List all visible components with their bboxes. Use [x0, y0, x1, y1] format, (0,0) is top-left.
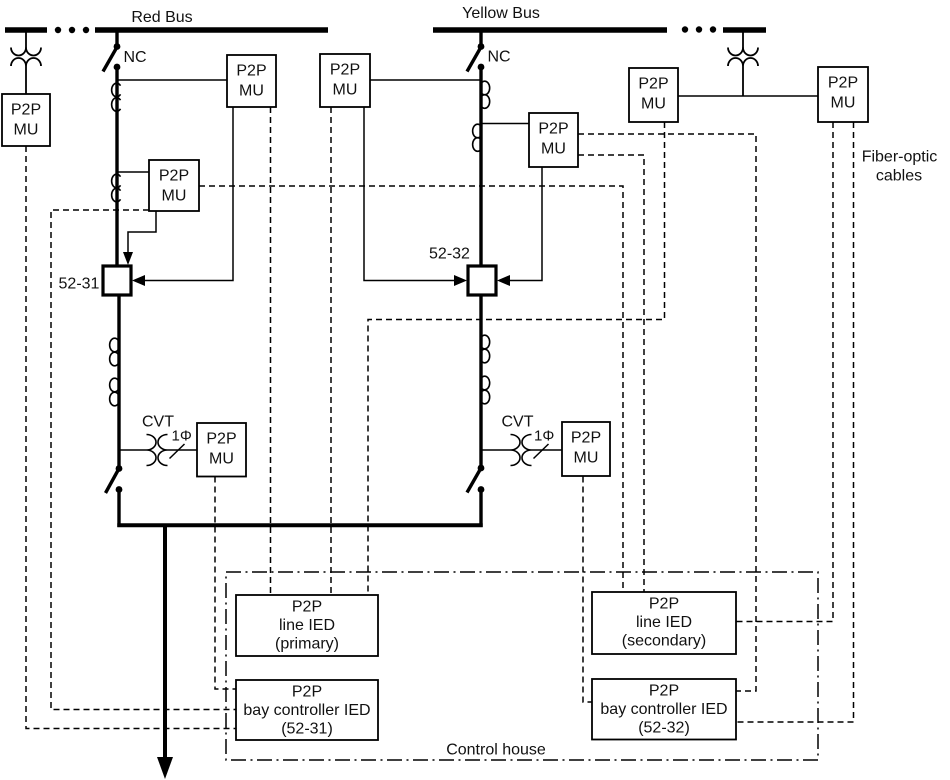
svg-text:Fiber-optic: Fiber-optic: [862, 149, 938, 166]
svg-text:P2P: P2P: [292, 684, 322, 701]
svg-text:P2P: P2P: [11, 102, 41, 119]
svg-text:P2P: P2P: [330, 62, 360, 79]
svg-text:(primary): (primary): [275, 636, 339, 653]
svg-text:P2P: P2P: [206, 431, 236, 448]
svg-text:P2P: P2P: [571, 430, 601, 447]
svg-text:MU: MU: [209, 451, 234, 468]
svg-text:Yellow Bus: Yellow Bus: [462, 5, 540, 22]
svg-text:P2P: P2P: [638, 76, 668, 93]
svg-text:1Φ: 1Φ: [534, 428, 554, 445]
svg-text:MU: MU: [641, 96, 666, 113]
svg-text:(52-32): (52-32): [638, 720, 690, 737]
svg-text:MU: MU: [333, 82, 358, 99]
svg-text:line IED: line IED: [279, 617, 335, 634]
svg-text:MU: MU: [162, 188, 187, 205]
svg-text:(secondary): (secondary): [622, 633, 706, 650]
svg-text:NC: NC: [124, 49, 147, 66]
svg-text:line IED: line IED: [636, 614, 692, 631]
svg-text:P2P: P2P: [236, 63, 266, 80]
svg-text:cables: cables: [876, 168, 922, 185]
svg-text:P2P: P2P: [649, 596, 679, 613]
svg-text:1Φ: 1Φ: [172, 428, 192, 445]
svg-text:52-32: 52-32: [429, 246, 470, 263]
svg-text:P2P: P2P: [649, 683, 679, 700]
svg-text:NC: NC: [488, 49, 511, 66]
svg-text:P2P: P2P: [292, 599, 322, 616]
svg-text:bay controller IED: bay controller IED: [243, 702, 370, 719]
svg-text:MU: MU: [14, 122, 39, 139]
svg-text:Red Bus: Red Bus: [131, 9, 192, 26]
svg-text:bay controller IED: bay controller IED: [600, 701, 727, 718]
svg-text:P2P: P2P: [159, 168, 189, 185]
svg-text:MU: MU: [541, 141, 566, 158]
svg-text:MU: MU: [239, 83, 264, 100]
svg-text:Control house: Control house: [446, 742, 546, 759]
svg-text:MU: MU: [831, 95, 856, 112]
svg-text:MU: MU: [574, 450, 599, 467]
svg-text:(52-31): (52-31): [281, 721, 333, 738]
svg-text:52-31: 52-31: [59, 276, 100, 293]
svg-text:P2P: P2P: [828, 75, 858, 92]
svg-text:CVT: CVT: [142, 414, 174, 431]
svg-text:P2P: P2P: [538, 121, 568, 138]
svg-text:CVT: CVT: [502, 414, 534, 431]
